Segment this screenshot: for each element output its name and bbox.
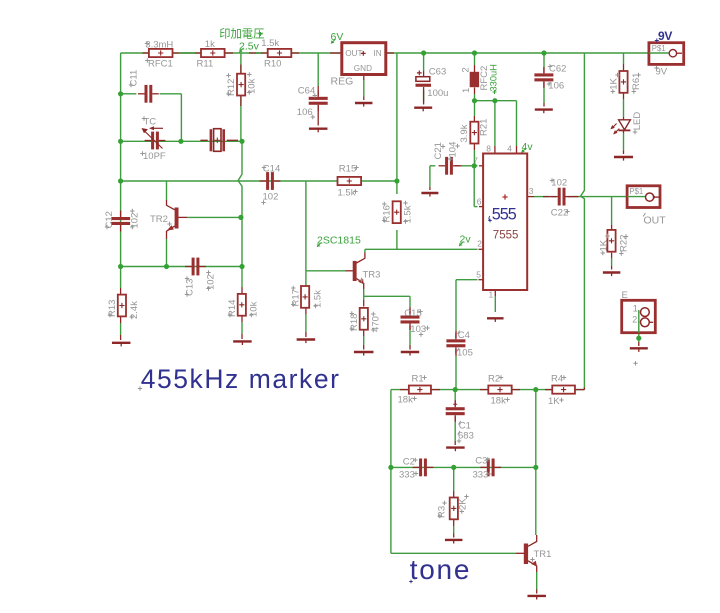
svg-text:OUT: OUT [345, 49, 362, 58]
svg-text:102: 102 [129, 213, 140, 229]
svg-text:R18: R18 [349, 314, 360, 331]
svg-text:C22: C22 [551, 208, 568, 219]
svg-text:1K: 1K [608, 78, 619, 90]
svg-text:1: 1 [461, 88, 472, 93]
svg-text:R15: R15 [339, 164, 356, 175]
svg-text:18k: 18k [491, 396, 507, 407]
svg-text:C2: C2 [403, 456, 415, 467]
svg-text:C3: C3 [475, 456, 487, 467]
svg-text:1.5k: 1.5k [313, 290, 324, 308]
svg-text:IN: IN [374, 49, 382, 58]
svg-text:2: 2 [460, 67, 471, 72]
svg-text:8: 8 [486, 144, 491, 154]
svg-text:2.4k: 2.4k [129, 301, 140, 319]
svg-text:106: 106 [297, 107, 313, 118]
svg-text:555: 555 [492, 206, 517, 224]
svg-text:100u: 100u [427, 88, 448, 99]
svg-text:TR3: TR3 [363, 269, 381, 280]
svg-text:TR2: TR2 [150, 214, 168, 225]
svg-text:C64: C64 [298, 86, 315, 97]
svg-text:7555: 7555 [493, 230, 519, 242]
svg-text:R13: R13 [107, 300, 118, 317]
svg-text:印加電圧: 印加電圧 [219, 28, 264, 41]
svg-text:4: 4 [507, 144, 512, 154]
svg-text:1k: 1k [205, 39, 215, 50]
svg-text:333: 333 [473, 470, 489, 481]
svg-text:3.3mH: 3.3mH [145, 39, 173, 50]
svg-text:9V: 9V [658, 29, 672, 43]
svg-text:C11: C11 [128, 70, 139, 87]
svg-text:683: 683 [458, 431, 474, 442]
svg-text:1.5k: 1.5k [403, 205, 414, 223]
svg-text:104: 104 [447, 142, 458, 158]
svg-text:2.5v: 2.5v [239, 41, 260, 53]
svg-text:GND: GND [354, 64, 372, 73]
svg-text:330uH: 330uH [489, 64, 499, 91]
svg-text:R10: R10 [264, 58, 281, 69]
svg-text:1: 1 [633, 304, 638, 314]
svg-text:2SC1815: 2SC1815 [317, 235, 361, 247]
svg-text:P$1: P$1 [652, 44, 666, 53]
svg-text:C62: C62 [549, 63, 566, 74]
svg-text:TR1: TR1 [534, 549, 552, 560]
svg-text:C13: C13 [184, 279, 195, 296]
svg-text:6: 6 [477, 197, 482, 207]
svg-text:106: 106 [548, 81, 564, 92]
svg-text:R22: R22 [618, 235, 629, 252]
svg-text:18k: 18k [398, 395, 414, 406]
svg-text:R11: R11 [197, 58, 214, 69]
svg-text:REG: REG [331, 76, 354, 88]
svg-text:OUT: OUT [644, 215, 667, 227]
svg-text:103: 103 [410, 324, 426, 335]
svg-text:C14: C14 [263, 164, 280, 175]
svg-text:RFC1: RFC1 [148, 58, 173, 69]
svg-text:C21: C21 [433, 142, 444, 159]
svg-text:1K: 1K [598, 239, 609, 251]
svg-text:2: 2 [477, 239, 482, 249]
svg-text:1.5k: 1.5k [338, 188, 356, 199]
svg-text:5: 5 [476, 270, 481, 280]
svg-text:333: 333 [399, 469, 415, 480]
svg-text:R16: R16 [381, 205, 392, 222]
svg-text:R21: R21 [478, 119, 489, 136]
svg-text:E: E [622, 290, 628, 301]
svg-text:LED: LED [632, 112, 643, 131]
svg-text:10PF: 10PF [143, 151, 166, 162]
svg-text:C15: C15 [404, 308, 421, 319]
svg-text:102: 102 [206, 274, 217, 290]
svg-text:10k: 10k [247, 78, 258, 94]
svg-text:R14: R14 [227, 300, 238, 317]
svg-text:3.9k: 3.9k [459, 124, 470, 142]
svg-text:P$1: P$1 [629, 187, 643, 196]
svg-text:102: 102 [551, 177, 567, 188]
svg-text:R2: R2 [488, 374, 500, 385]
svg-text:2K: 2K [457, 498, 468, 510]
svg-text:3: 3 [529, 186, 534, 196]
svg-text:1K: 1K [548, 396, 560, 407]
svg-text:102: 102 [263, 192, 279, 203]
svg-text:R4: R4 [551, 374, 563, 385]
svg-text:C63: C63 [429, 66, 446, 77]
svg-text:7: 7 [473, 156, 478, 166]
svg-text:C12: C12 [104, 211, 115, 228]
svg-text:455kHz marker: 455kHz marker [141, 364, 341, 394]
svg-text:105: 105 [457, 347, 473, 358]
svg-text:tone: tone [410, 554, 471, 585]
svg-text:R12: R12 [226, 79, 237, 96]
svg-text:TC: TC [144, 116, 157, 127]
svg-text:2: 2 [632, 315, 637, 325]
svg-text:R17: R17 [290, 289, 301, 306]
svg-text:1: 1 [489, 290, 494, 300]
svg-text:R1: R1 [412, 374, 424, 385]
